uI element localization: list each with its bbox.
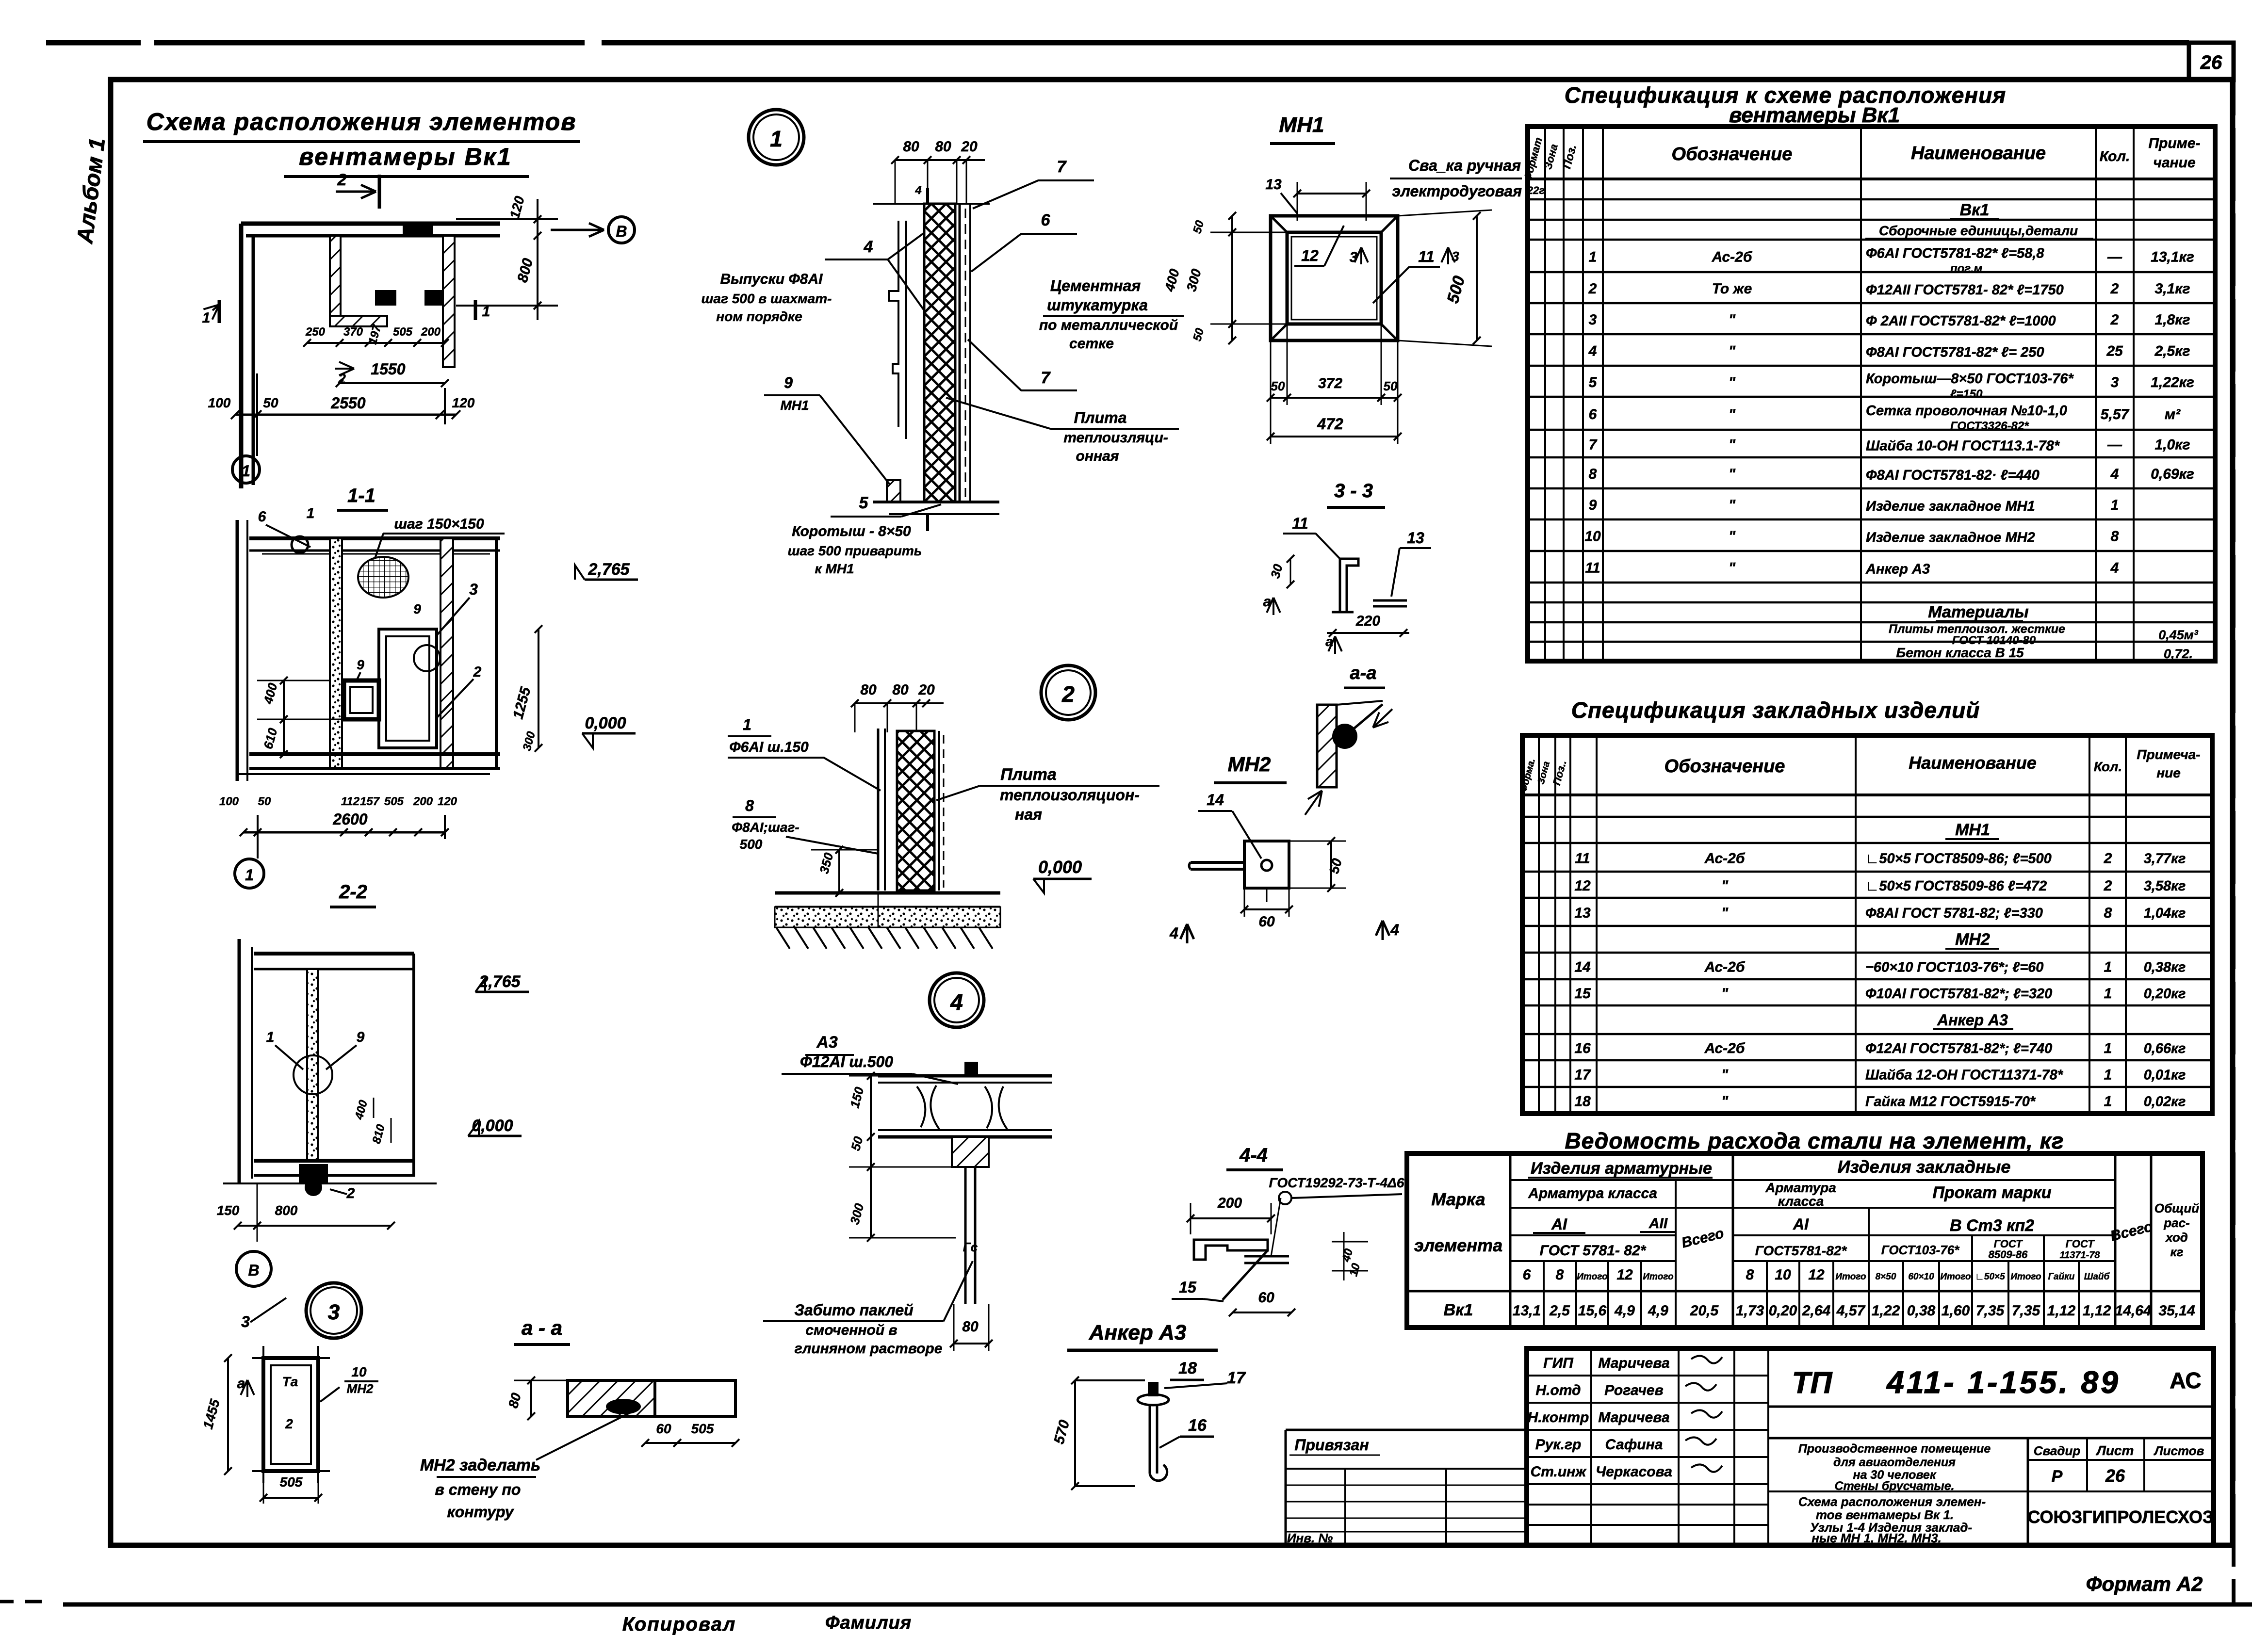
svg-text:200: 200 <box>1217 1195 1242 1211</box>
svg-text:100: 100 <box>219 795 239 808</box>
svg-text:": " <box>1729 529 1736 545</box>
svg-text:3 - 3: 3 - 3 <box>1334 480 1373 502</box>
svg-text:14,64: 14,64 <box>2115 1303 2151 1319</box>
svg-text:80: 80 <box>962 1319 979 1335</box>
svg-text:2-2: 2-2 <box>339 881 367 903</box>
svg-text:2: 2 <box>346 1185 355 1201</box>
svg-text:4: 4 <box>2110 560 2119 576</box>
svg-text:15: 15 <box>1179 1279 1197 1296</box>
svg-text:4,9: 4,9 <box>1648 1303 1668 1319</box>
svg-text:112: 112 <box>341 795 360 808</box>
svg-text:Цементная: Цементная <box>1050 277 1141 294</box>
svg-text:1,8кг: 1,8кг <box>2155 312 2190 328</box>
svg-text:80: 80 <box>903 139 919 155</box>
svg-text:Плита: Плита <box>1074 409 1127 426</box>
svg-text:Ф8АI ГОСТ5781-82· ℓ=440: Ф8АI ГОСТ5781-82· ℓ=440 <box>1866 468 2040 483</box>
svg-text:3: 3 <box>241 1313 250 1330</box>
svg-text:АI: АI <box>1793 1215 1809 1233</box>
svg-text:3: 3 <box>469 581 478 598</box>
svg-text:0,38: 0,38 <box>1907 1303 1936 1319</box>
svg-text:120: 120 <box>452 395 475 410</box>
svg-text:Ведомость расхода стали на эле: Ведомость расхода стали на элемент, кг <box>1565 1128 2064 1153</box>
svg-text:То же: То же <box>1712 281 1752 297</box>
svg-text:": " <box>1729 343 1736 359</box>
svg-text:Схема расположения элементов: Схема расположения элементов <box>147 108 577 135</box>
svg-text:вентамеры Вк1: вентамеры Вк1 <box>1729 103 1900 127</box>
svg-text:1,04кг: 1,04кг <box>2144 906 2186 921</box>
svg-text:ТП: ТП <box>1792 1366 1833 1400</box>
svg-text:−60×10 ГОСТ103-76*; ℓ=60: −60×10 ГОСТ103-76*; ℓ=60 <box>1865 960 2043 975</box>
svg-text:": " <box>1721 1067 1729 1083</box>
svg-text:Шайба 12-ОН ГОСТ11371-78*: Шайба 12-ОН ГОСТ11371-78* <box>1865 1068 2064 1083</box>
svg-text:250: 250 <box>305 325 326 339</box>
svg-text:Привязан: Привязан <box>1294 1436 1369 1454</box>
svg-text:505: 505 <box>280 1474 303 1490</box>
svg-text:0,000: 0,000 <box>1038 857 1082 877</box>
svg-text:2,5: 2,5 <box>1549 1303 1570 1319</box>
svg-text:Коротыш - 8×50: Коротыш - 8×50 <box>792 523 911 539</box>
svg-text:рас-: рас- <box>2163 1215 2189 1230</box>
svg-text:13: 13 <box>1265 177 1282 193</box>
svg-text:4,57: 4,57 <box>1836 1303 1866 1319</box>
svg-text:шаг 150×150: шаг 150×150 <box>394 516 484 532</box>
svg-text:": " <box>1729 466 1736 482</box>
svg-text:ная: ная <box>1015 806 1042 823</box>
svg-text:Ф6АI ш.150: Ф6АI ш.150 <box>729 739 809 755</box>
svg-text:Маричева: Маричева <box>1598 1409 1669 1425</box>
svg-text:18: 18 <box>1178 1359 1197 1377</box>
svg-text:8: 8 <box>2104 905 2112 921</box>
svg-text:800: 800 <box>275 1203 298 1218</box>
svg-text:0,45м³: 0,45м³ <box>2158 628 2199 642</box>
svg-text:7,35: 7,35 <box>1976 1303 2005 1319</box>
svg-text:0,000: 0,000 <box>585 714 626 732</box>
svg-text:Ст.инж: Ст.инж <box>1531 1464 1587 1480</box>
svg-text:Бетон класса В 15: Бетон класса В 15 <box>1896 645 2024 660</box>
svg-text:Сва_ка ручная: Сва_ка ручная <box>1408 157 1521 174</box>
svg-text:50: 50 <box>1271 379 1285 393</box>
svg-text:1,0кг: 1,0кг <box>2155 437 2190 453</box>
svg-text:Сафина: Сафина <box>1605 1437 1663 1453</box>
svg-text:10: 10 <box>351 1364 367 1379</box>
svg-text:6: 6 <box>1523 1267 1531 1283</box>
svg-text:МН1: МН1 <box>1279 113 1324 137</box>
svg-text:Лист: Лист <box>2096 1443 2134 1458</box>
svg-text:10: 10 <box>1775 1267 1791 1283</box>
svg-text:Ф12АI ГОСТ5781-82*; ℓ=740: Ф12АI ГОСТ5781-82*; ℓ=740 <box>1865 1041 2052 1056</box>
svg-text:Н.отд: Н.отд <box>1535 1382 1581 1398</box>
svg-text:Р: Р <box>2052 1467 2063 1486</box>
svg-text:3,1кг: 3,1кг <box>2155 281 2190 297</box>
svg-text:2: 2 <box>285 1416 293 1431</box>
svg-text:7: 7 <box>1057 158 1067 176</box>
svg-text:200: 200 <box>421 325 441 339</box>
svg-text:35,14: 35,14 <box>2158 1303 2195 1319</box>
svg-text:ном порядке: ном порядке <box>716 309 802 324</box>
svg-text:13: 13 <box>1407 529 1424 547</box>
svg-text:Вк1: Вк1 <box>1444 1301 1473 1319</box>
svg-text:элемента: элемента <box>1414 1235 1502 1255</box>
svg-text:12: 12 <box>1301 247 1319 264</box>
svg-text:теплоизляци-: теплоизляци- <box>1063 430 1168 446</box>
svg-text:А3: А3 <box>816 1033 838 1052</box>
svg-text:2: 2 <box>337 171 347 189</box>
svg-text:9: 9 <box>357 657 364 672</box>
svg-text:1: 1 <box>2104 1067 2112 1083</box>
svg-text:Вк1: Вк1 <box>1960 201 1990 219</box>
svg-text:": " <box>1721 878 1729 894</box>
svg-text:15,6: 15,6 <box>1578 1303 1607 1319</box>
svg-text:1: 1 <box>242 462 250 480</box>
svg-text:60: 60 <box>1258 1290 1274 1306</box>
svg-text:16: 16 <box>1188 1416 1207 1435</box>
svg-text:АII: АII <box>1648 1215 1668 1231</box>
svg-text:ГОСТ: ГОСТ <box>2066 1238 2095 1250</box>
svg-text:9: 9 <box>1589 497 1597 513</box>
svg-text:0,20: 0,20 <box>1769 1303 1797 1319</box>
svg-text:ГИП: ГИП <box>1543 1355 1574 1371</box>
svg-text:—: — <box>2107 437 2122 453</box>
svg-text:7,35: 7,35 <box>2012 1303 2041 1319</box>
svg-text:80: 80 <box>892 682 909 698</box>
svg-text:1,12: 1,12 <box>2047 1303 2076 1319</box>
svg-text:3: 3 <box>328 1300 340 1324</box>
svg-text:0,01кг: 0,01кг <box>2144 1068 2186 1083</box>
svg-text:200: 200 <box>413 795 433 808</box>
svg-text:1: 1 <box>770 126 783 151</box>
svg-text:": " <box>1721 986 1729 1002</box>
svg-text:26: 26 <box>2105 1466 2125 1486</box>
svg-text:Итого: Итого <box>1940 1272 1971 1282</box>
svg-text:3: 3 <box>2111 374 2119 390</box>
svg-text:класса: класса <box>1778 1194 1824 1209</box>
svg-text:МН1: МН1 <box>780 398 809 413</box>
svg-text:14: 14 <box>1207 791 1224 809</box>
svg-text:МН2 заделать: МН2 заделать <box>420 1456 540 1474</box>
svg-text:Рук.гр: Рук.гр <box>1535 1437 1582 1453</box>
svg-text:—: — <box>2107 249 2122 265</box>
svg-text:Забито паклей: Забито паклей <box>794 1301 913 1319</box>
svg-text:МН2: МН2 <box>347 1381 374 1396</box>
svg-text:Ас-2б: Ас-2б <box>1704 1040 1746 1056</box>
svg-text:вентамеры Вк1: вентамеры Вк1 <box>299 143 512 170</box>
svg-text:13,1кг: 13,1кг <box>2151 249 2194 265</box>
svg-text:1: 1 <box>743 716 751 733</box>
svg-text:50: 50 <box>263 395 278 410</box>
svg-text:1: 1 <box>2104 959 2112 975</box>
svg-text:ГОСТ103-76*: ГОСТ103-76* <box>1881 1243 1960 1257</box>
svg-text:100: 100 <box>208 395 231 410</box>
svg-text:11: 11 <box>1292 515 1308 532</box>
svg-text:0,69кг: 0,69кг <box>2151 466 2194 482</box>
svg-text:1: 1 <box>2104 1094 2112 1110</box>
svg-text:5,57: 5,57 <box>2101 406 2130 422</box>
svg-text:17: 17 <box>1574 1067 1591 1083</box>
svg-text:11: 11 <box>1575 851 1590 867</box>
svg-text:5: 5 <box>1589 374 1598 390</box>
svg-text:Наименование: Наименование <box>1909 753 2036 773</box>
svg-text:Формат А2: Формат А2 <box>2086 1572 2203 1595</box>
svg-text:электродуговая: электродуговая <box>1392 182 1522 200</box>
svg-text:Гайки: Гайки <box>2048 1272 2075 1282</box>
svg-text:14: 14 <box>1574 959 1591 975</box>
svg-text:а-а: а-а <box>1350 663 1377 683</box>
svg-text:Марка: Марка <box>1431 1189 1485 1209</box>
svg-text:8509-86: 8509-86 <box>1989 1248 2028 1261</box>
svg-text:Изделие закладное МН2: Изделие закладное МН2 <box>1866 530 2035 546</box>
svg-text:Итого: Итого <box>2010 1272 2041 1282</box>
svg-text:шаг 500 в шахмат-: шаг 500 в шахмат- <box>702 291 832 306</box>
svg-text:8: 8 <box>745 797 754 814</box>
svg-text:1,12: 1,12 <box>2083 1303 2111 1319</box>
svg-text:ход: ход <box>2165 1230 2188 1245</box>
svg-text:11: 11 <box>1418 248 1434 265</box>
svg-text:2600: 2600 <box>332 810 367 828</box>
svg-text:0,66кг: 0,66кг <box>2144 1041 2186 1056</box>
svg-text:50: 50 <box>258 795 271 808</box>
svg-text:4: 4 <box>1169 924 1178 942</box>
svg-text:ГОСТ5781-82*: ГОСТ5781-82* <box>1755 1243 1847 1258</box>
svg-text:16: 16 <box>1574 1040 1591 1056</box>
svg-text:Шайба 10-ОН ГОСТ113.1-78*: Шайба 10-ОН ГОСТ113.1-78* <box>1866 438 2060 454</box>
svg-text:1: 1 <box>482 304 490 320</box>
svg-text:кг: кг <box>2170 1245 2183 1259</box>
svg-text:Ф8АI ГОСТ 5781-82; ℓ=330: Ф8АI ГОСТ 5781-82; ℓ=330 <box>1865 906 2043 921</box>
svg-text:50: 50 <box>1384 379 1398 393</box>
svg-text:2: 2 <box>2104 851 2112 867</box>
svg-text:8: 8 <box>2111 529 2119 545</box>
svg-text:3: 3 <box>1589 312 1597 328</box>
svg-text:шаг 500 приварить: шаг 500 приварить <box>788 543 922 558</box>
svg-text:пог.м: пог.м <box>1950 262 1982 275</box>
svg-text:1: 1 <box>2104 986 2112 1002</box>
svg-text:1550: 1550 <box>371 360 405 378</box>
svg-text:Ф 2АII ГОСТ5781-82* ℓ=1000: Ф 2АII ГОСТ5781-82* ℓ=1000 <box>1866 313 2056 329</box>
svg-text:смоченной в: смоченной в <box>805 1322 897 1338</box>
svg-text:8: 8 <box>1556 1267 1564 1283</box>
svg-text:60×10: 60×10 <box>1908 1272 1934 1282</box>
svg-text:Листов: Листов <box>2154 1443 2204 1458</box>
svg-text:Анкер А3: Анкер А3 <box>1937 1011 2008 1029</box>
svg-text:Та: Та <box>282 1374 298 1389</box>
svg-text:11371-78: 11371-78 <box>2059 1250 2100 1261</box>
svg-text:4: 4 <box>1390 921 1399 939</box>
svg-text:Шайб: Шайб <box>2084 1272 2110 1282</box>
svg-text:2: 2 <box>1061 681 1075 707</box>
svg-text:4,9: 4,9 <box>1614 1303 1635 1319</box>
svg-text:ГОСТ 5781- 82*: ГОСТ 5781- 82* <box>1540 1243 1647 1259</box>
svg-text:9: 9 <box>357 1029 365 1045</box>
svg-text:Ас-2б: Ас-2б <box>1704 959 1746 975</box>
svg-text:Общий: Общий <box>2154 1201 2200 1215</box>
svg-text:Схема расположения элемен-: Схема расположения элемен- <box>1798 1494 1986 1509</box>
svg-text:Фамилия: Фамилия <box>825 1613 912 1633</box>
svg-text:в стену по: в стену по <box>435 1481 521 1498</box>
svg-text:Кол.: Кол. <box>2100 148 2130 164</box>
svg-text:Приме-: Приме- <box>2148 135 2200 151</box>
svg-text:25: 25 <box>2106 343 2123 359</box>
svg-text:к МН1: к МН1 <box>815 561 854 576</box>
svg-text:8×50: 8×50 <box>1876 1272 1896 1282</box>
svg-text:2: 2 <box>1588 281 1597 297</box>
svg-text:3,58кг: 3,58кг <box>2144 878 2186 894</box>
svg-text:1: 1 <box>1589 249 1597 265</box>
svg-text:ные МН 1, МН2, МН3.: ные МН 1, МН2, МН3. <box>1811 1531 1942 1545</box>
svg-text:": " <box>1721 905 1729 921</box>
svg-text:∟50×5 ГОСТ8509-86; ℓ=500: ∟50×5 ГОСТ8509-86; ℓ=500 <box>1865 851 2052 867</box>
svg-text:4: 4 <box>864 238 873 256</box>
svg-text:": " <box>1729 560 1736 576</box>
svg-text:20: 20 <box>918 682 935 698</box>
svg-text:20: 20 <box>961 139 978 155</box>
svg-text:чание: чание <box>2153 155 2195 171</box>
svg-text:Изделия закладные: Изделия закладные <box>1838 1157 2011 1177</box>
svg-text:4: 4 <box>914 184 921 197</box>
svg-text:10: 10 <box>1584 529 1601 545</box>
svg-text:м²: м² <box>2165 406 2181 422</box>
svg-text:1: 1 <box>307 505 315 521</box>
svg-text:Ас-2б: Ас-2б <box>1712 249 1753 265</box>
svg-text:АI: АI <box>1551 1215 1567 1233</box>
svg-text:Н.контр: Н.контр <box>1528 1409 1589 1425</box>
svg-text:ГОСТ19292-73-Т-4Δ6: ГОСТ19292-73-Т-4Δ6 <box>1269 1175 1404 1190</box>
svg-text:контуру: контуру <box>447 1503 514 1521</box>
svg-text:157: 157 <box>360 795 380 808</box>
svg-text:": " <box>1729 312 1736 328</box>
svg-text:9: 9 <box>784 374 793 391</box>
svg-text:Плита: Плита <box>1000 765 1057 784</box>
svg-text:Гс: Гс <box>963 1240 978 1254</box>
svg-text:8: 8 <box>1746 1267 1754 1283</box>
svg-text:15: 15 <box>1574 986 1591 1002</box>
svg-text:Спецификация закладных изделий: Спецификация закладных изделий <box>1571 697 1980 723</box>
svg-text:Ф12АII ГОСТ5781- 82* ℓ=1750: Ф12АII ГОСТ5781- 82* ℓ=1750 <box>1866 282 2064 298</box>
svg-text:Ф6АI ГОСТ5781-82* ℓ=58,8: Ф6АI ГОСТ5781-82* ℓ=58,8 <box>1866 246 2044 261</box>
svg-text:МН2: МН2 <box>1228 753 1271 776</box>
svg-text:18: 18 <box>1574 1094 1591 1110</box>
svg-text:по металлической: по металлической <box>1039 317 1178 333</box>
svg-text:∟50×5: ∟50×5 <box>1975 1272 2005 1282</box>
svg-text:150: 150 <box>217 1203 240 1218</box>
svg-text:МН1: МН1 <box>1955 821 1990 839</box>
svg-text:Обозначение: Обозначение <box>1665 756 1785 777</box>
svg-text:2,765: 2,765 <box>587 560 630 579</box>
svg-text:∟50×5 ГОСТ8509-86 ℓ=472: ∟50×5 ГОСТ8509-86 ℓ=472 <box>1865 878 2047 894</box>
svg-text:505: 505 <box>393 325 413 339</box>
svg-text:20,5: 20,5 <box>1690 1303 1719 1319</box>
svg-text:штукатурка: штукатурка <box>1047 296 1148 314</box>
svg-text:Примеча-: Примеча- <box>2137 747 2200 762</box>
svg-text:Обозначение: Обозначение <box>1672 144 1793 164</box>
svg-text:2: 2 <box>473 664 482 680</box>
svg-text:1,60: 1,60 <box>1942 1303 1970 1319</box>
svg-text:1,22: 1,22 <box>1872 1303 1900 1319</box>
svg-text:Копировал: Копировал <box>622 1614 736 1635</box>
svg-text:80: 80 <box>935 139 951 155</box>
svg-text:8: 8 <box>1589 466 1597 482</box>
svg-text:Итого: Итого <box>1835 1272 1866 1282</box>
svg-text:80: 80 <box>860 682 877 698</box>
svg-text:1: 1 <box>245 866 254 884</box>
svg-text:12: 12 <box>1574 878 1591 894</box>
svg-text:Анкер А3: Анкер А3 <box>1089 1321 1186 1344</box>
svg-text:6: 6 <box>258 509 266 525</box>
svg-text:ние: ние <box>2156 765 2181 780</box>
svg-text:Ф10АI ГОСТ5781-82*; ℓ=320: Ф10АI ГОСТ5781-82*; ℓ=320 <box>1865 986 2052 1002</box>
svg-text:Арматура: Арматура <box>1765 1180 1836 1195</box>
svg-text:для авиаотделения: для авиаотделения <box>1833 1456 1956 1469</box>
svg-text:60: 60 <box>1258 914 1275 930</box>
svg-text:7: 7 <box>1041 369 1051 387</box>
svg-text:теплоизоляцион-: теплоизоляцион- <box>1000 786 1140 804</box>
svg-text:11: 11 <box>1585 560 1600 576</box>
svg-text:": " <box>1729 497 1736 513</box>
svg-text:": " <box>1721 1094 1729 1110</box>
svg-text:60: 60 <box>656 1421 671 1436</box>
svg-text:2: 2 <box>2104 878 2112 894</box>
svg-text:В Ст3 кп2: В Ст3 кп2 <box>1950 1216 2034 1235</box>
svg-text:В: В <box>248 1262 259 1279</box>
svg-text:2: 2 <box>2110 281 2119 297</box>
svg-text:Черкасова: Черкасова <box>1596 1464 1672 1480</box>
svg-text:Гайка М12 ГОСТ5915-70*: Гайка М12 ГОСТ5915-70* <box>1865 1094 2036 1110</box>
svg-text:": " <box>1729 406 1736 422</box>
svg-text:1: 1 <box>202 310 211 326</box>
svg-text:онная: онная <box>1076 448 1119 464</box>
svg-text:Ф8АI ГОСТ5781-82* ℓ= 250: Ф8АI ГОСТ5781-82* ℓ= 250 <box>1866 345 2044 360</box>
svg-text:АС: АС <box>2170 1368 2201 1393</box>
svg-text:": " <box>1729 437 1736 453</box>
svg-text:ℓ=150: ℓ=150 <box>1950 388 1983 401</box>
svg-text:Ф12АI ш.500: Ф12АI ш.500 <box>800 1053 893 1070</box>
svg-text:2550: 2550 <box>330 394 365 412</box>
svg-text:26: 26 <box>2200 52 2222 73</box>
svg-text:3,77кг: 3,77кг <box>2144 851 2186 867</box>
svg-text:4: 4 <box>1588 343 1597 359</box>
svg-text:505: 505 <box>691 1421 714 1436</box>
svg-text:9: 9 <box>413 601 421 616</box>
svg-text:Коротыш—8×50 ГОСТ103-76*: Коротыш—8×50 ГОСТ103-76* <box>1866 371 2074 387</box>
svg-text:Ф8АI;шаг-: Ф8АI;шаг- <box>732 820 800 835</box>
svg-text:сетке: сетке <box>1069 336 1114 352</box>
svg-text:Маричева: Маричева <box>1598 1355 1669 1371</box>
svg-text:Производственное помещение: Производственное помещение <box>1798 1442 1991 1456</box>
svg-text:Итого: Итого <box>1643 1272 1673 1282</box>
svg-text:4: 4 <box>950 989 963 1015</box>
svg-text:1-1: 1-1 <box>347 485 375 506</box>
svg-text:500: 500 <box>740 837 763 852</box>
svg-text:2: 2 <box>2110 312 2119 328</box>
svg-text:17: 17 <box>1227 1369 1246 1387</box>
svg-text:220: 220 <box>1355 613 1380 629</box>
svg-text:370: 370 <box>343 325 363 339</box>
svg-text:120: 120 <box>438 795 457 808</box>
svg-text:6: 6 <box>1589 406 1597 422</box>
svg-text:Стены брусчатые.: Стены брусчатые. <box>1834 1479 1954 1493</box>
svg-text:Ас-2б: Ас-2б <box>1704 851 1746 867</box>
svg-text:Рогачев: Рогачев <box>1604 1382 1663 1398</box>
svg-text:2,5кг: 2,5кг <box>2154 343 2190 359</box>
svg-text:4-4: 4-4 <box>1239 1145 1268 1166</box>
svg-text:Изделия арматурные: Изделия арматурные <box>1531 1159 1712 1178</box>
svg-text:13: 13 <box>1574 905 1591 921</box>
svg-text:глиняном растворе: глиняном растворе <box>795 1341 943 1357</box>
svg-text:Инв. №: Инв. № <box>1287 1531 1333 1545</box>
svg-text:Арматура класса: Арматура класса <box>1528 1185 1657 1201</box>
svg-text:Прокат марки: Прокат марки <box>1932 1183 2051 1202</box>
svg-text:1: 1 <box>2111 497 2119 513</box>
svg-text:МН2: МН2 <box>1955 930 1990 949</box>
